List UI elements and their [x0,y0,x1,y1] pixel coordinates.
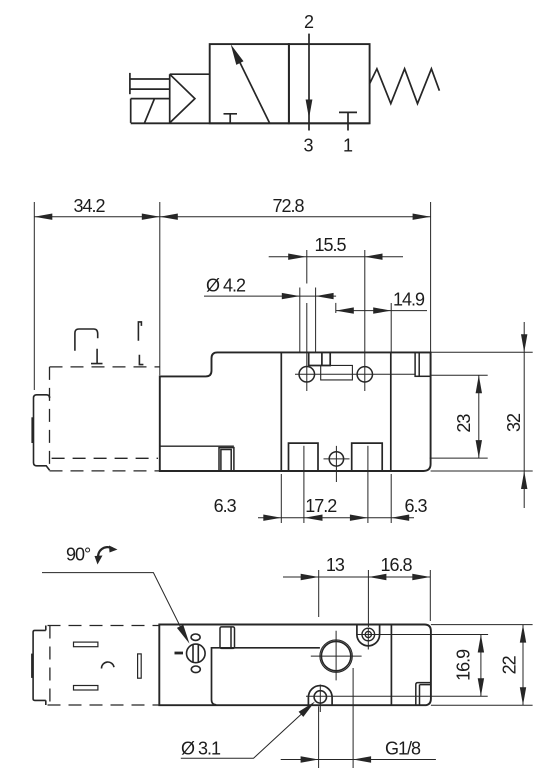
svg-text:G1/8: G1/8 [385,739,421,759]
bottom hole crosshair [324,446,350,482]
solenoid connection lines [130,73,170,94]
wire triangle-to-body [170,73,210,75]
connector pin [91,349,103,364]
top pocket [309,352,331,365]
crosshair pilot hole top [357,628,488,650]
port fitting bottom right (bottom view) [416,683,431,706]
notch centerline left [303,446,305,523]
svg-text:Ø 4.2: Ø 4.2 [206,275,246,295]
bottom notch left [289,443,319,471]
svg-text:2: 2 [304,12,314,32]
notch centerline right [367,446,369,523]
pocket recess rectangle [321,365,353,380]
dimension 34.2 [34,202,160,390]
dimension 14.9 [336,303,427,353]
svg-text:13: 13 [326,555,345,575]
solenoid end cap [32,395,49,470]
svg-text:34.2: 34.2 [73,196,105,216]
centerline hole 1 [306,250,308,391]
dia 3.1 hole [314,691,326,703]
body interior line [160,445,234,447]
dimension dia 4.2 [204,288,336,353]
bottom rail wire [131,122,370,124]
pilot exhaust hole (top) [362,628,375,641]
blocked port symbol (left square) [224,114,238,124]
flow path arrow (left square) [231,44,270,123]
leader line to manual override [42,573,190,644]
mounting hole 1 (dia 4.2) [299,367,315,383]
port 2 line with flow arrow 2-to-3 [306,34,313,131]
side port fitting (top right) [415,352,431,376]
dimension 13 [283,570,430,627]
bottom hole (side view) [329,452,343,466]
connector clip [138,322,143,365]
svg-text:1: 1 [343,136,353,156]
body section line right [390,352,392,471]
pilot triangle [170,74,195,123]
dimension 15.5 (hole spacing) [269,254,403,260]
connector end cap (bottom view) [32,626,46,706]
dimension 16.9 [478,635,484,697]
connector pin 2 [74,686,98,691]
centerline hole 2 [364,250,366,391]
svg-text:15.5: 15.5 [314,235,346,255]
svg-text:6.3: 6.3 [214,496,237,516]
solenoid coil K1 (valve symbol, left) [131,99,170,123]
dimension 32 [431,322,533,508]
body section line (bottom view) [390,625,392,706]
valve body outline (side view) [160,352,431,471]
connector pin 1 [74,642,98,647]
return spring [370,69,440,104]
solenoid housing (hidden, dashed) [50,367,160,471]
holes horizontal centerline [295,373,415,375]
side port fitting (bottom left) [219,448,234,471]
port fitting top (bottom view) [220,627,235,649]
dimension 16.8 [412,570,430,621]
svg-text:14.9: 14.9 [393,290,425,310]
svg-text:16.9: 16.9 [454,649,474,681]
svg-text:Ø 3.1: Ø 3.1 [181,739,221,759]
svg-text:32: 32 [504,413,524,432]
connector housing (bottom view, dashed) [48,626,160,706]
svg-text:17.2: 17.2 [305,496,337,516]
override end stop mark [175,652,184,655]
body step interior line [212,648,320,705]
svg-text:72.8: 72.8 [272,196,304,216]
svg-text:3: 3 [303,136,313,156]
dia 3.1 boss (bottom) [308,686,332,706]
svg-text:90°: 90° [66,545,91,565]
connector ground arc [101,662,114,668]
svg-text:6.3: 6.3 [404,496,427,516]
dimension 22 [431,625,533,706]
bottom dimension chain 6.3 / 17.2 / 6.3 [258,474,414,523]
rotation arc arrow [95,546,118,565]
dimension 72.8 [160,202,431,352]
bottom notch right [352,443,383,471]
valve body square (actuated position) [210,44,289,123]
svg-text:16.8: 16.8 [380,555,412,575]
svg-text:23: 23 [454,414,474,433]
svg-text:22: 22 [500,655,520,674]
body section line left [280,352,282,471]
mounting hole 2 [357,367,372,382]
connector key slot [138,654,142,678]
crosshair dia 3.1 hole [306,685,488,713]
valve body square (rest position) [289,44,370,123]
pilot exhaust boss (top) [357,625,380,646]
valve body outline (bottom view) [159,625,431,706]
G1/8 threaded port [311,631,362,681]
connector boot outline [75,329,98,351]
manual override screw [187,634,206,673]
dimension 23 [430,375,488,458]
blocked port 1 symbol [339,112,357,130]
